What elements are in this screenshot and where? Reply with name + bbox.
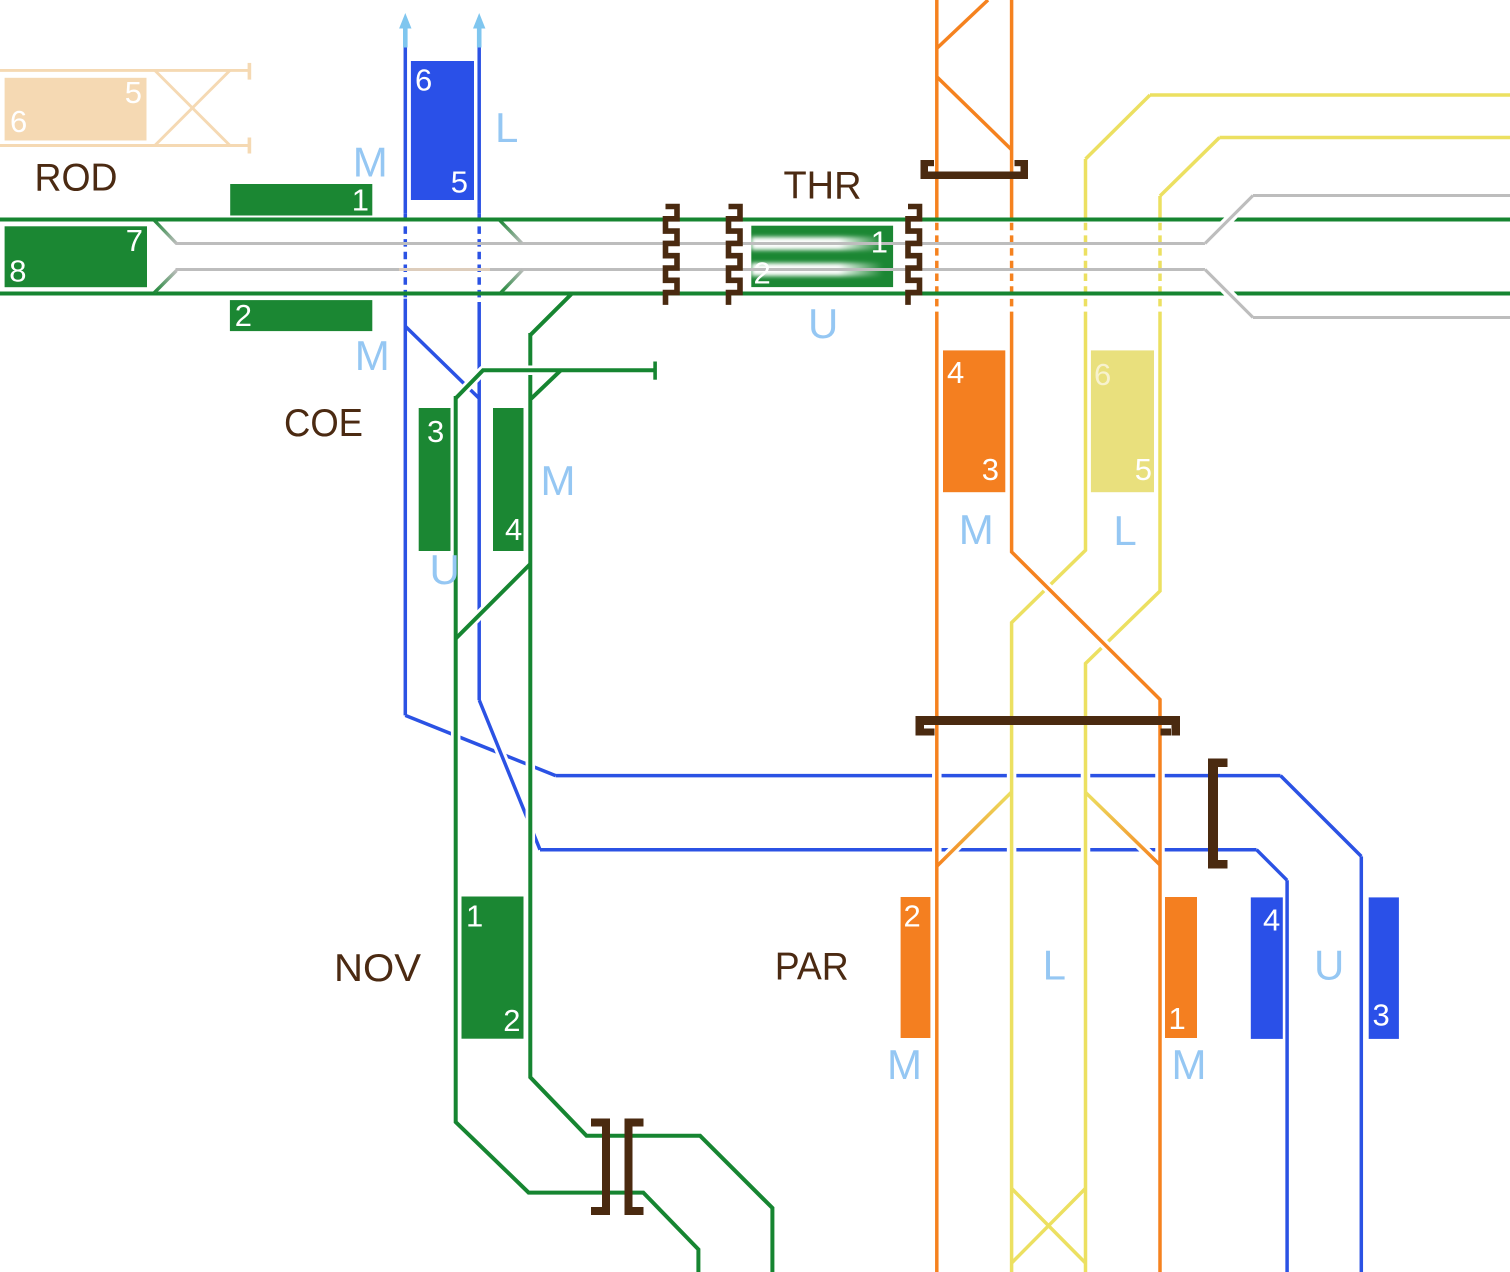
COE platform 3 (green) [419,408,451,551]
ROD platform 7/8 (green) [5,226,147,287]
light blue arrow on blue M east [477,20,482,48]
buffer stop tick green stub [653,362,657,380]
svg-text:COE: COE [284,402,363,445]
svg-text:U: U [808,300,838,347]
west junction diagonal green-to-gray north [154,220,177,244]
yellow line L east: bend diagonal [1160,138,1220,197]
green connector stub-to-U2 diagonal [531,370,561,399]
THR orange platform 4/3 [943,350,1005,492]
svg-text:7: 7 [126,223,143,258]
svg-text:1: 1 [466,899,483,934]
mid junction diagonal green-to-gray north [499,220,522,244]
svg-text:3: 3 [1373,998,1390,1033]
svg-text:M: M [1172,1041,1207,1088]
buffer stop tick top tan track [248,63,252,80]
svg-text:5: 5 [451,165,468,200]
yellow L west: vertical then crossover to inner (casing) [1012,312,1086,1272]
ROD platform 1 (green) [230,184,372,216]
boundary beams on NOV-south green lines (left) [591,1119,610,1216]
orange top crossover diagonal upper [937,0,988,48]
svg-text:1: 1 [1169,1001,1186,1036]
gray track south [176,268,1206,271]
blue M east vertical (COE section) [477,302,481,700]
svg-text:3: 3 [982,452,999,487]
orange line east vertical top [1010,0,1014,210]
blue line M vertical west (solid above corridor) [404,47,408,214]
gradient connector yellow-to-orange west [942,797,1007,861]
yellow line L west vertical top [1084,159,1088,210]
svg-text:M: M [959,506,994,553]
orange M east: vertical, long crossover diagonal, vertical (casing) [1012,312,1160,1272]
boundary beams on NOV-south green lines (right) [625,1119,644,1216]
main green track north (ROD-THR) [0,218,1510,222]
orange M west vertical full (casing) [932,315,942,1269]
ROD platform 2 (green) [230,300,372,331]
blue M south bend diagonal down [1257,850,1288,881]
blue line M vertical east (dashed across corridor) [477,214,481,299]
PAR blue platform 3 [1369,897,1399,1039]
blue platform 6/5 at M [411,61,474,200]
blue M north bend diagonal down [1281,776,1362,857]
COE platform 4 (green) [493,408,524,551]
svg-text:PAR: PAR [775,946,849,989]
ROD yard: crossover X diagonal 2 [155,70,230,145]
svg-text:6: 6 [10,104,27,139]
yellow line L east vertical top [1158,196,1162,210]
svg-text:L: L [1113,507,1136,554]
blue crossover diagonal at COE [405,326,479,398]
svg-text:2: 2 [754,256,771,291]
east gray track north upper level [1253,194,1510,197]
yellow scissors crossover diagonal 2 [1012,1188,1086,1263]
orange line west vertical top [935,0,939,210]
green U1 vertical COE-NOV then SE to bottom (casing on lower part) [456,700,699,1272]
green U2 branch diagonal from main line [530,294,572,336]
west junction diagonal green-to-gray south [154,271,177,294]
svg-text:NOV: NOV [334,947,421,990]
east gray diverge diagonal north (with casing over green) [1205,196,1253,244]
gray track north [176,242,1206,245]
blue M east steep diagonal (casing over crossing) [480,702,539,848]
svg-text:6: 6 [1094,357,1111,392]
east bracket on blue lines [1208,759,1228,869]
svg-text:3: 3 [427,414,444,449]
svg-text:ROD: ROD [35,156,118,199]
yellow line L west dashed across corridor [1084,210,1088,312]
svg-text:M: M [887,1041,922,1088]
blue M south horizontal (to PAR) [540,848,1257,852]
mid junction diagonal gray-to-green south [500,270,523,294]
svg-text:1: 1 [352,183,369,218]
gray track over THR platform north [744,242,906,245]
svg-text:6: 6 [415,63,432,98]
large bracket over PAR lines [916,716,1181,736]
orange line east vertical dashed across corridor [1010,210,1014,312]
PAR orange platform 2 [901,897,931,1038]
buffer stop tick bottom tan track [248,138,252,154]
ROD yard: tan siding bottom line with buffer stop [0,144,249,147]
orange line west vertical dashed across corridor [935,210,939,312]
svg-text:5: 5 [125,75,142,110]
svg-text:M: M [355,332,390,379]
blue M west vertical (COE section) [404,299,408,716]
svg-text:1: 1 [871,225,888,260]
THR yellow platform 6/5 [1091,350,1154,492]
east gray diverge diagonal south [1205,270,1253,318]
yellow line L east dashed across corridor [1158,210,1162,312]
svg-text:5: 5 [1135,452,1152,487]
svg-text:4: 4 [1263,903,1280,938]
yellow line L east: horizontal from right edge [1220,136,1510,140]
orange top crossover diagonal lower [937,77,1012,150]
yellow line L west: bend diagonal [1086,95,1151,159]
PAR orange platform 1 [1165,897,1197,1038]
bracket over orange lines (THR north) [921,160,1029,179]
green crossover U2-to-U1 at COE (casing over blue) [461,570,524,633]
svg-text:8: 8 [9,254,26,289]
green siding stub at COE with buffer (cased, over U2 and blue) [458,370,655,396]
green U2 vertical COE-NOV then SE to bottom (casing on lower part) [530,700,772,1272]
svg-text:U: U [1314,941,1344,988]
svg-text:L: L [495,104,518,151]
tunnel portal comb east [908,207,920,305]
svg-text:4: 4 [505,512,522,547]
svg-text:M: M [353,138,388,185]
blue U east vertical to bottom [1360,856,1364,1272]
svg-text:2: 2 [503,1003,520,1038]
gray track over THR platform south [744,268,906,271]
blue M north horizontal (to PAR) [556,774,1281,778]
ROD yard: tan siding top line with buffer stop [0,69,249,72]
svg-text:M: M [541,457,576,504]
ROD yard: crossover X diagonal 1 [155,70,230,145]
svg-text:L: L [1043,941,1066,988]
gradient connector yellow-to-orange east [1091,797,1155,859]
tunnel portal comb west outer [666,207,678,305]
yellow line L west: horizontal from right edge [1150,93,1510,97]
yellow L east: vertical then crossover to inner (casing) [1086,312,1161,1272]
svg-text:2: 2 [235,298,252,333]
tunnel portal comb west inner [729,207,741,305]
NOV platform 1/2 (green) [462,897,524,1039]
light blue arrow on blue M west [403,20,408,48]
blue U west vertical to bottom [1285,880,1289,1272]
yellow scissors crossover diagonal 1 [1012,1188,1086,1263]
blue line M vertical west (dashed across corridor) [404,214,408,299]
PAR blue platform 4 [1251,897,1283,1039]
svg-text:4: 4 [947,355,964,390]
tan tint segment on gray south track [399,268,490,271]
svg-text:2: 2 [904,899,921,934]
east gray track south lower level [1253,316,1510,319]
blue line M vertical east (solid above corridor) [477,47,481,214]
THR platform 1/2 (green, with white track glows) [751,226,893,287]
ROD platform 5/6 (tan) [5,78,147,141]
main green track south (ROD-THR) [0,292,1510,296]
svg-text:THR: THR [784,164,862,207]
blue M west shallow diagonal to horizontal [405,715,555,775]
svg-text:U: U [430,546,460,593]
